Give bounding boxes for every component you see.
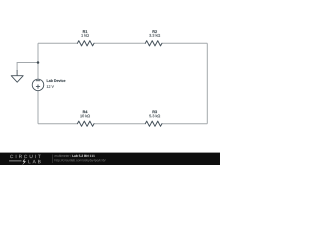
wire right side [206,43,208,123]
node junction dot [37,61,40,64]
wire left upper segment [37,43,39,79]
label R2 name [153,30,157,33]
wire top-middle segment [94,42,145,44]
label R1 value 1 kOhm [81,34,88,37]
logo divider [52,155,54,164]
resistor R4 body [77,121,94,126]
logo word LAB [28,160,40,163]
watermark title white part [72,155,94,157]
label R3 value 5.3 kOhm [149,114,160,117]
logo underline [9,160,22,162]
wire ground tap [17,63,38,71]
wire top-right segment [162,42,207,44]
resistor R1 body [77,41,94,46]
voltage source V1 circle [32,79,44,91]
voltage source minus sign [36,80,40,82]
label V1 value 12 V [47,85,54,88]
label R1 name [83,30,87,33]
resistor R2 body [145,41,162,46]
ground GND [11,70,23,82]
resistor R3 body [145,121,162,126]
wire left lower segment [37,91,39,124]
watermark url [55,159,106,162]
label R3 name [153,110,157,113]
label V1 name Lab Device [47,79,66,82]
logo lightning bolt [22,158,26,165]
wire bottom-left segment [38,123,77,125]
label R4 value 10 kOhm [80,114,90,117]
label R2 value 3.3 kOhm [149,34,160,37]
watermark bar [0,153,220,165]
watermark title gray part [55,155,72,157]
logo word CIRCUIT [10,155,41,158]
label R4 name [83,110,88,113]
wire bottom-right segment [162,123,207,125]
voltage source plus sign [36,85,40,89]
wire bottom-middle segment [94,123,145,125]
wire top-left segment [38,42,77,44]
